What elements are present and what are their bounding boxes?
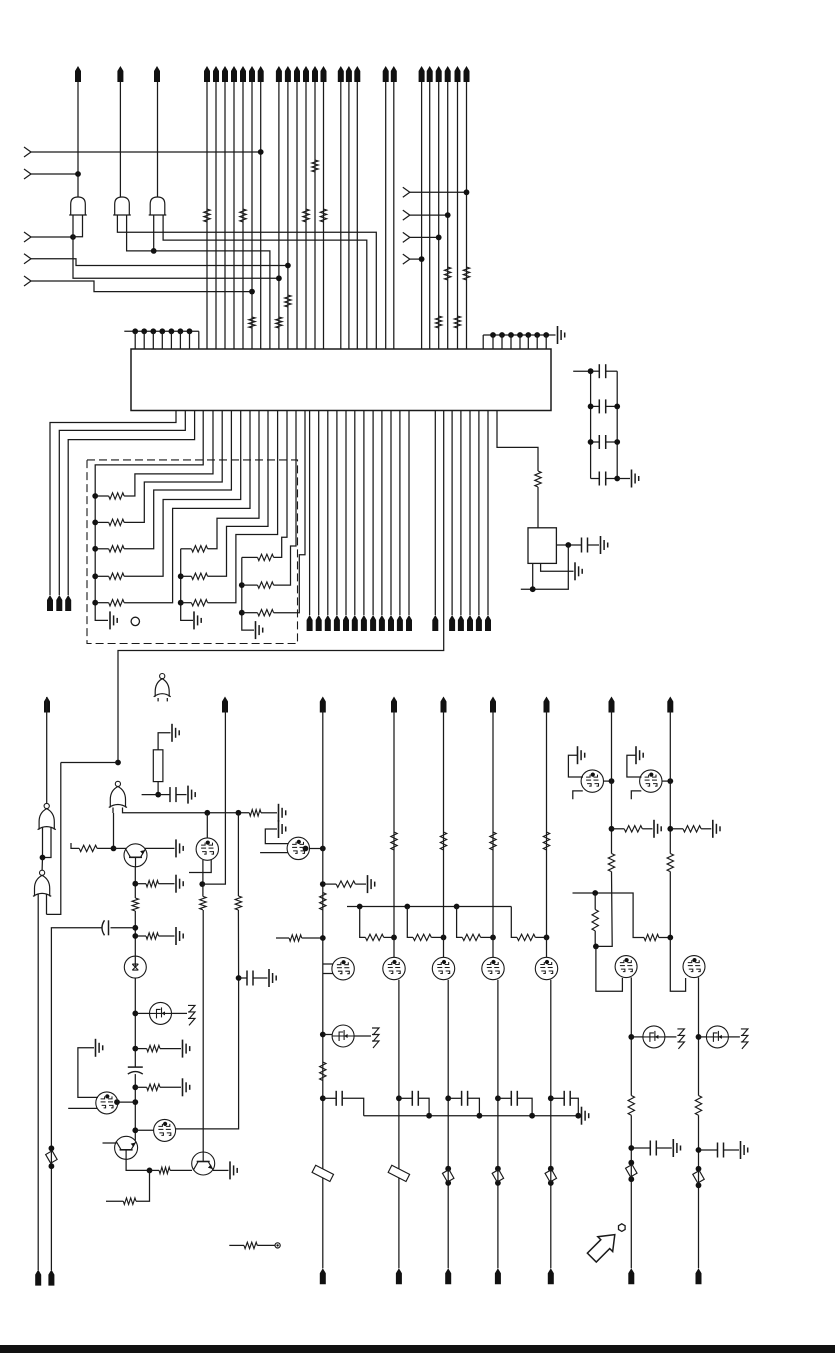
wire to mosfet8 <box>117 1101 135 1103</box>
wire E2 to chassis <box>354 1035 371 1037</box>
wire bus line x=323.5 <box>323 82 325 349</box>
node comp 4 <box>696 1034 702 1040</box>
terminal arrow M18 <box>485 615 491 631</box>
terminal arrow TA19 <box>354 66 360 82</box>
node 322 res <box>320 881 326 887</box>
node on gate1 output <box>75 171 81 177</box>
component E4 <box>706 1026 728 1048</box>
wire group3 rail <box>242 557 254 630</box>
node mosfet8 out <box>114 1099 120 1105</box>
wire IC pin down 1 <box>309 411 311 616</box>
rail 493 upper <box>492 710 494 958</box>
wire QR2 hook <box>631 791 641 799</box>
fuse F1 <box>312 1165 333 1181</box>
node cap bus 429.1 <box>426 1113 432 1119</box>
rail 698.5 bottom <box>698 1115 700 1268</box>
capacitor CM1 <box>399 1091 429 1116</box>
node 238 cap <box>236 975 242 981</box>
pin tie R1 <box>490 332 496 349</box>
transistor Q3 <box>192 1152 215 1175</box>
node group1 row4 <box>92 573 98 579</box>
wire X1 right to cap <box>556 544 581 546</box>
ground cap ladder <box>632 470 639 488</box>
wire stub left <box>142 794 159 796</box>
wire Q7 drain to ground <box>265 829 288 844</box>
node ladder L3 <box>588 439 594 445</box>
terminal arrow M3 <box>325 615 331 631</box>
node rail 611.5 res <box>609 826 615 832</box>
pin tie L3 <box>150 328 156 349</box>
node chain 1087 <box>132 1084 138 1090</box>
capacitor CL1 <box>591 364 618 378</box>
wire bus line x=421.6 <box>421 82 423 349</box>
terminal arrow B51 <box>48 1270 54 1286</box>
ground CB2 <box>741 1141 748 1159</box>
wire IC pin to resistor <box>497 411 538 472</box>
wire rail225 jog <box>202 710 225 884</box>
terminal arrow M13 <box>432 615 438 631</box>
resistor RN12 <box>95 411 222 526</box>
wire NOR3 left input <box>112 808 115 849</box>
wire Q2 base down <box>126 1159 149 1170</box>
ground R21 <box>183 1078 190 1096</box>
terminal arrow M16 <box>467 615 473 631</box>
terminal arrow L5 <box>441 697 447 713</box>
rail 443.5 upper <box>443 710 445 958</box>
node X1 loop <box>530 586 536 592</box>
terminal arrow BL3 <box>65 595 71 611</box>
wire NOR2 left input down <box>37 894 39 1270</box>
resistor R15 box <box>153 750 163 782</box>
ground R26 <box>368 875 375 893</box>
capacitor C6 <box>158 787 186 802</box>
node cap bus 479.4 <box>477 1113 483 1119</box>
node on line 288 <box>285 263 291 269</box>
ground C9 <box>269 969 276 987</box>
resistor RM1 <box>391 832 397 850</box>
wire cap ladder feed <box>573 370 590 372</box>
resistor RR2 <box>670 826 711 832</box>
dashed block outline <box>87 460 298 644</box>
resistor R7 on line 466 <box>463 267 469 280</box>
resistor R11 on line 279 <box>276 317 282 328</box>
pin tie R4 <box>517 332 523 349</box>
resistor R10 on line 288 <box>285 295 291 307</box>
node ladder L1 <box>588 368 594 374</box>
node cap rail 3 <box>495 1095 501 1101</box>
terminal arrow M10 <box>388 615 394 631</box>
resistor R22 <box>150 1167 193 1173</box>
diode DB2 <box>693 1166 704 1188</box>
wire gate2 output line <box>119 82 121 197</box>
wire Q7 source to rail <box>310 848 323 850</box>
capacitor C10 <box>323 1091 364 1116</box>
node X1 cap <box>565 542 571 548</box>
ground QR1 <box>568 746 584 777</box>
node comp 3 <box>628 1034 634 1040</box>
node group1 row3 <box>92 546 98 552</box>
rail 394 upper <box>393 710 395 958</box>
diode DB1 <box>626 1160 637 1182</box>
ground R20 <box>183 1040 190 1058</box>
resistor RN14 <box>95 411 241 580</box>
terminal arrow L8 <box>609 697 615 713</box>
resistor R1 on line 207 <box>204 209 210 222</box>
wire Q4 gate1 to ground <box>78 1048 98 1098</box>
pin tie L4 <box>159 328 165 349</box>
terminal arrow L1 <box>44 697 50 713</box>
wire IC pin down 3 <box>327 411 329 616</box>
pin tie L5 <box>169 328 175 349</box>
wire to comp E2 <box>323 1034 333 1036</box>
resistor R18 <box>132 898 138 911</box>
wire Q3 to ground <box>213 1169 229 1171</box>
input connector J2 <box>24 169 78 179</box>
wire bus line x=225 <box>224 82 226 349</box>
wire to mosfet9 <box>135 1129 153 1131</box>
gate U3D NOR floating <box>154 674 171 702</box>
wire chain 3 <box>134 1074 136 1140</box>
rail 670 lower <box>669 872 671 938</box>
wire Q6 top <box>206 813 208 838</box>
pin tie L7 <box>187 328 193 349</box>
wire ladder to ground <box>617 478 630 480</box>
resistor R26 <box>323 881 366 887</box>
ground group3 <box>256 621 263 639</box>
wire IC pin down 13 <box>434 411 436 616</box>
wire IC pin to left terminal 2 <box>59 411 185 596</box>
wire to NOR2 input <box>47 763 119 915</box>
wire gate3 output line <box>157 82 159 197</box>
terminal arrow B38 <box>35 1270 41 1286</box>
rail 611.5 upper <box>611 710 613 854</box>
input connector J8 <box>403 232 439 242</box>
resistor R20 <box>135 1045 181 1051</box>
ground Q7 <box>279 820 286 838</box>
wire bus line x=216 <box>215 82 217 349</box>
wire Q4 gate2 stub <box>68 1107 97 1109</box>
terminal arrow B322 <box>320 1268 326 1284</box>
wire bus line x=340.8 <box>340 82 342 349</box>
node cap 4 <box>696 1147 702 1153</box>
terminal arrow TA7 <box>231 66 237 82</box>
wire to comp <box>135 1012 149 1014</box>
pin tie R7 <box>543 332 549 349</box>
mosfet Q6 <box>196 838 218 860</box>
wire bus line x=385.7 <box>385 82 387 349</box>
node group2 row2 <box>178 573 184 579</box>
resistor R23 stub <box>106 1170 150 1204</box>
node QR2 <box>667 778 673 784</box>
resistor R2 on line 243 <box>240 209 246 222</box>
wire mid bus <box>347 906 511 908</box>
resistor RM3 <box>490 832 496 850</box>
resistor R24 <box>200 884 206 910</box>
ground X1 cap <box>601 536 608 554</box>
wire bus line x=252 <box>251 82 253 349</box>
node mid bus 1 <box>357 904 363 910</box>
diode D448.2 <box>442 1166 453 1186</box>
input connector J1 <box>24 147 261 157</box>
terminal arrow TA26 <box>455 66 461 82</box>
resistor R9 on line 457 <box>454 316 460 328</box>
wire Q7 gate stub <box>260 852 287 854</box>
wire bus line x=297 <box>296 82 298 349</box>
wire NOR1 output up <box>46 697 48 803</box>
wire NOR2 output up <box>41 858 43 871</box>
node 202 <box>199 881 205 887</box>
terminal arrow BR2 <box>696 1268 702 1284</box>
rail 611 lower <box>596 872 612 947</box>
wire bus line x=457.5 <box>457 82 459 349</box>
node 322 stub <box>320 935 326 941</box>
chassis ground E2 <box>372 1028 379 1048</box>
wire IC pin down 14 <box>451 411 453 616</box>
wire QR1 hook <box>573 791 583 799</box>
capacitor C5 <box>582 538 588 553</box>
node ladder R4 <box>614 476 620 482</box>
rail 670.3 upper <box>669 710 671 854</box>
wire NOR2 right input <box>46 894 48 914</box>
wire bus line x=234 <box>233 82 235 349</box>
resistor RN31 <box>242 411 287 561</box>
pin tie L6 <box>178 328 184 349</box>
terminal arrow L2 <box>222 697 228 713</box>
node ladder L2 <box>588 404 594 410</box>
wire Q6 right lead stub <box>189 860 211 873</box>
mosfet QM3 <box>482 957 504 979</box>
node NOR1 in tie <box>40 855 46 861</box>
node group3 row3 <box>239 610 245 616</box>
resistor RM2 <box>440 832 446 850</box>
ground RR1 <box>654 820 661 838</box>
terminal arrow BM2 <box>445 1268 451 1284</box>
resistor R25 <box>235 896 241 910</box>
wire IC pin down 7 <box>363 411 365 616</box>
wire chain <box>134 911 136 967</box>
resistor R28 stub <box>276 935 323 941</box>
mosfet Q5 <box>154 1119 176 1141</box>
node line 466 <box>464 189 470 195</box>
wire QR2 to rail <box>662 780 670 782</box>
ground RR2 <box>713 820 720 838</box>
node ladder R3 <box>614 439 620 445</box>
wire IC-top right tie bus <box>483 335 555 349</box>
capacitor CL3 <box>591 435 618 449</box>
node group3 row2 <box>239 582 245 588</box>
indicator DS1 <box>124 956 146 978</box>
ground cap bus <box>582 1107 589 1125</box>
node gate rail 2 <box>441 935 447 941</box>
node gate rail 3 <box>490 935 496 941</box>
wire bus line x=393.8 <box>393 82 395 349</box>
resistor RN11 <box>95 411 213 500</box>
ground QR2 <box>627 746 643 777</box>
wire Q3 collector rail <box>202 910 204 1152</box>
wire bus line x=357.3 <box>356 82 358 349</box>
ground IC-top right <box>558 326 565 344</box>
wire IC pin down 9 <box>381 411 383 616</box>
input connector J7 <box>403 210 448 220</box>
diode D550.8 <box>545 1166 556 1186</box>
terminal arrow TA17 <box>338 66 344 82</box>
terminal arrow T1 <box>75 66 81 82</box>
node chain 1013 <box>132 1011 138 1017</box>
terminal arrow M12 <box>406 615 412 631</box>
pointer annotation <box>584 1224 625 1265</box>
wire gate1 net to line 279 <box>73 237 279 278</box>
rail 238 lower <box>237 910 239 992</box>
chassis ground E1 <box>188 1005 195 1025</box>
transistor Q1 <box>124 844 147 867</box>
resistor RB2 <box>695 1096 701 1116</box>
wire IC pin down 6 <box>354 411 356 616</box>
wire Q9 gate path <box>596 946 623 991</box>
wire Q8 gates <box>323 964 333 974</box>
wire Q1 chain <box>134 867 136 898</box>
capacitor CM3 <box>498 1091 532 1116</box>
resistor RM4 <box>543 832 549 850</box>
mosfet Q10 <box>683 956 705 978</box>
wire R15 top to ground <box>158 733 170 750</box>
wire IC pin to left terminal 1 <box>50 411 176 596</box>
terminal arrow M1 <box>307 615 313 631</box>
node gate1 inputs <box>70 234 76 240</box>
node R15 <box>155 792 161 798</box>
gate U3B NOR <box>38 803 56 829</box>
resistor R29 <box>320 1062 326 1081</box>
wire Q1 to ground <box>145 847 175 849</box>
node mid bus 2 <box>404 904 410 910</box>
terminal arrow TA13 <box>294 66 300 82</box>
wire resistor to box <box>537 487 539 528</box>
rail 497.9 lower <box>497 980 499 1269</box>
mosfet QM1 <box>383 957 405 979</box>
terminal arrow TA21 <box>391 66 397 82</box>
resistor R32 isolated <box>229 1242 280 1248</box>
capacitor C9 <box>239 971 268 986</box>
resistor R6 on line 448 <box>445 267 451 280</box>
diode D497.9 <box>492 1166 503 1186</box>
resistor R16 <box>79 845 97 851</box>
terminal arrow TA14 <box>303 66 309 82</box>
mosfet QR2 <box>640 770 662 792</box>
node bus 207 <box>204 810 210 816</box>
ground Q3 <box>230 1161 237 1179</box>
node gate rail 4 <box>544 935 550 941</box>
node gate2-gate3 bus <box>151 248 157 254</box>
resistor RN33 <box>242 411 305 616</box>
mosfet Q4 <box>96 1092 118 1114</box>
wire to comp E4 <box>699 1036 707 1038</box>
terminal arrow L7 <box>544 697 550 713</box>
wire IC pin down 12 <box>408 411 410 616</box>
wire cap bus to ground <box>578 1115 580 1117</box>
node group1 row1 <box>92 493 98 499</box>
node Q7 out <box>303 846 326 852</box>
node IC line junction <box>115 760 121 766</box>
resistor R12 on line 252 <box>249 317 255 328</box>
terminal arrow TA9 <box>249 66 255 82</box>
node on line 260 <box>258 149 264 155</box>
node chain 884 <box>132 881 138 887</box>
node chain 928 <box>132 925 138 931</box>
terminal arrow M15 <box>458 615 464 631</box>
pin tie R2 <box>499 332 505 349</box>
rail 322 upper <box>322 710 324 1268</box>
wire IC pin down 8 <box>372 411 374 616</box>
node rail 670.3 res <box>667 826 673 832</box>
node gate rail 1 <box>391 935 397 941</box>
node bus 238 <box>236 810 242 816</box>
mosfet QR1 <box>581 770 603 792</box>
mosfet Q9 <box>615 956 637 978</box>
wire cap bus <box>364 1115 579 1117</box>
terminal arrow BM3 <box>495 1268 501 1284</box>
terminal arrow T2 <box>117 66 123 82</box>
wire Q5 to rail 238 <box>176 992 239 1129</box>
resistor R19 <box>135 933 174 939</box>
input connector J5 <box>24 276 252 292</box>
node on line 279 <box>276 275 282 281</box>
wire bus line x=348.9 <box>348 82 350 349</box>
chassis ground E4 <box>741 1029 748 1049</box>
ground CB1 <box>673 1139 680 1157</box>
node cap rail 2 <box>445 1095 451 1101</box>
pin tie R3 <box>508 332 514 349</box>
resistor R31 <box>644 934 670 940</box>
wire cap ladder left rail <box>590 371 592 478</box>
terminal arrow M11 <box>397 615 403 631</box>
terminal arrow M14 <box>449 615 455 631</box>
wire Q10 gate path <box>670 938 685 992</box>
ground Q4 <box>96 1039 103 1057</box>
node cap rail 4 <box>548 1095 554 1101</box>
wire bus line x=306 <box>305 82 307 349</box>
wire bus line x=315 <box>314 82 316 349</box>
resistor RR1 <box>612 826 653 832</box>
wire X1 bottom to ground <box>541 563 574 571</box>
wire group1 top feed <box>95 411 203 621</box>
rail 398.9 lower <box>398 980 400 1269</box>
capacitor CM4 <box>551 1091 579 1116</box>
wire bus line x=466.5 <box>466 82 468 349</box>
wire cap to ground <box>588 544 600 546</box>
terminal arrow L4 <box>391 697 397 713</box>
terminal arrow T3 <box>154 66 160 82</box>
resistor RN15 <box>95 411 250 606</box>
wire group2 rail <box>181 549 193 621</box>
input connector J3 <box>24 232 73 242</box>
component E3 <box>643 1026 665 1048</box>
gate U3C NOR <box>33 870 51 896</box>
screw hole symbol <box>131 617 139 625</box>
wire gate net left <box>573 893 645 938</box>
ground C6 <box>188 786 195 804</box>
terminal arrow BL1 <box>47 595 53 611</box>
resistor R17 <box>135 881 174 887</box>
rail 546.5 upper <box>546 710 548 958</box>
terminal arrow TA27 <box>464 66 470 82</box>
resistor RN13 <box>95 411 231 553</box>
terminal arrow L3 <box>320 697 326 713</box>
mosfet QM4 <box>535 957 557 979</box>
ground X1 mid <box>575 562 582 580</box>
rail 448.2 lower <box>447 980 449 1269</box>
node chain 1048 <box>132 1046 138 1052</box>
component X1 box <box>528 528 556 564</box>
wire Q2 left stub <box>103 1142 117 1144</box>
